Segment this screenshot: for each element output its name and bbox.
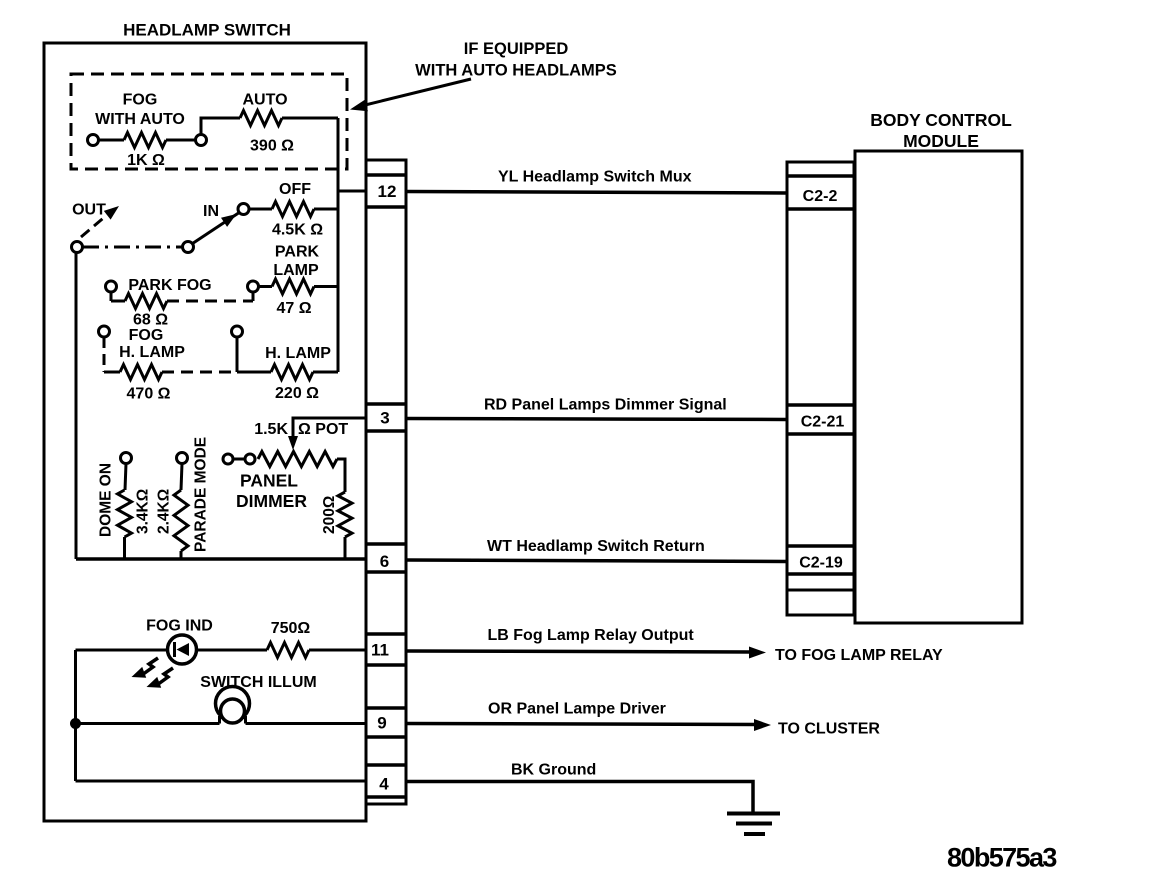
svg-text:9: 9 xyxy=(377,714,386,733)
ground symbol xyxy=(727,814,780,835)
svg-text:TO FOG LAMP RELAY: TO FOG LAMP RELAY xyxy=(775,647,943,664)
svg-text:4.5K Ω: 4.5K Ω xyxy=(272,222,323,239)
pin C2-21 cell xyxy=(787,403,854,407)
svg-text:C2-21: C2-21 xyxy=(801,414,845,431)
lamp SWITCH ILLUM xyxy=(76,674,369,724)
svg-text:80b575a3: 80b575a3 xyxy=(947,843,1057,873)
svg-text:OFF: OFF xyxy=(279,181,311,198)
svg-text:TO CLUSTER: TO CLUSTER xyxy=(778,721,880,738)
svg-text:47 Ω: 47 Ω xyxy=(276,300,311,317)
dashed box: auto headlamp option xyxy=(71,74,347,169)
pin 9 cell xyxy=(366,706,406,710)
resistor 68 ohm (PARK FOG) xyxy=(106,277,254,329)
svg-text:68 Ω: 68 Ω xyxy=(133,312,168,329)
resistor 390 ohm (AUTO) xyxy=(201,92,338,155)
switch common node xyxy=(183,242,194,253)
svg-text:Ω POT: Ω POT xyxy=(298,421,348,438)
BCM connector strip xyxy=(787,162,854,615)
svg-text:H. LAMP: H. LAMP xyxy=(119,344,185,361)
svg-text:H. LAMP: H. LAMP xyxy=(265,345,331,362)
svg-text:470 Ω: 470 Ω xyxy=(127,386,171,403)
svg-text:PARADE MODE: PARADE MODE xyxy=(193,437,210,552)
svg-text:PANEL: PANEL xyxy=(240,471,298,491)
svg-text:SWITCH ILLUM: SWITCH ILLUM xyxy=(200,674,316,691)
switch pivot node xyxy=(72,242,83,253)
wire: left rail from pivot down to dimmer network xyxy=(75,252,78,559)
svg-text:IN: IN xyxy=(203,203,219,220)
wire YL to C2-2 xyxy=(406,192,787,194)
svg-text:1K Ω: 1K Ω xyxy=(127,152,165,169)
svg-text:DIMMER: DIMMER xyxy=(236,491,307,511)
svg-text:WITH AUTO HEADLAMPS: WITH AUTO HEADLAMPS xyxy=(415,62,617,80)
svg-text:LB Fog Lamp Relay Output: LB Fog Lamp Relay Output xyxy=(488,627,695,644)
switch throw arrow OUT (dashed) xyxy=(81,215,107,237)
svg-text:12: 12 xyxy=(378,182,397,201)
svg-text:IF EQUIPPED: IF EQUIPPED xyxy=(464,40,569,58)
wire RD to C2-21 xyxy=(406,419,787,420)
svg-text:LAMP: LAMP xyxy=(273,262,319,279)
svg-text:WT Headlamp Switch Return: WT Headlamp Switch Return xyxy=(487,538,705,555)
svg-text:220 Ω: 220 Ω xyxy=(275,385,319,402)
LED light arrows xyxy=(132,658,174,688)
wire OR panel lamps driver xyxy=(406,724,757,725)
wire: ground row to pin 4 xyxy=(76,780,369,783)
wire WT to C2-19 xyxy=(406,560,787,562)
svg-text:3.4KΩ: 3.4KΩ xyxy=(135,489,152,534)
svg-text:BK Ground: BK Ground xyxy=(511,762,596,779)
resistor 1K ohm (FOG WITH AUTO) xyxy=(88,92,207,170)
svg-text:1.5K: 1.5K xyxy=(254,421,288,438)
resistor 220 ohm (H. LAMP) xyxy=(232,326,339,402)
arrow from note to dashed box xyxy=(357,79,471,107)
svg-text:DOME ON: DOME ON xyxy=(98,463,115,537)
svg-text:11: 11 xyxy=(371,641,389,660)
svg-text:BODY CONTROL: BODY CONTROL xyxy=(870,110,1012,130)
resistor 3.4K ohm (DOME ON) xyxy=(98,453,152,560)
wire BK ground xyxy=(406,782,753,814)
pin 11 cell xyxy=(366,632,406,636)
svg-text:FOG: FOG xyxy=(123,92,158,109)
wire from pin 3 to pot wiper xyxy=(293,418,368,443)
svg-text:MODULE: MODULE xyxy=(903,131,979,151)
body control module box xyxy=(855,151,1022,623)
svg-text:AUTO: AUTO xyxy=(242,92,287,109)
pin 6 cell xyxy=(366,542,406,546)
svg-text:OR Panel Lampe Driver: OR Panel Lampe Driver xyxy=(488,701,666,718)
svg-text:PARK FOG: PARK FOG xyxy=(128,277,211,294)
svg-text:YL Headlamp Switch Mux: YL Headlamp Switch Mux xyxy=(498,169,692,186)
svg-text:FOG: FOG xyxy=(129,327,164,344)
svg-text:750Ω: 750Ω xyxy=(271,620,311,637)
svg-text:3: 3 xyxy=(380,409,389,428)
wire: dimmer network bottom bus to pin 6 xyxy=(76,557,368,561)
pin C2-2 cell xyxy=(787,174,854,178)
svg-text:PARK: PARK xyxy=(275,244,320,261)
resistor 200 ohm xyxy=(321,492,352,559)
potentiometer 1.5K body xyxy=(223,452,345,493)
resistor 4.5K ohm (OFF) xyxy=(238,181,338,239)
pin 12 cell xyxy=(366,173,406,177)
svg-text:C2-2: C2-2 xyxy=(803,188,838,205)
svg-text:WITH AUTO: WITH AUTO xyxy=(95,111,185,128)
switch arm to IN position xyxy=(193,212,241,244)
svg-text:C2-19: C2-19 xyxy=(799,555,843,572)
dash-dot wire from pivot xyxy=(83,246,183,249)
left rail for lamp circuits xyxy=(74,650,77,781)
resistor 470 ohm (FOG H. LAMP) xyxy=(99,326,238,403)
svg-text:4: 4 xyxy=(379,775,389,794)
svg-text:6: 6 xyxy=(380,552,389,571)
resistor 47 ohm (PARK LAMP) xyxy=(248,244,339,318)
svg-text:2.4KΩ: 2.4KΩ xyxy=(156,489,173,534)
wire: common bus vertical to pin 12 xyxy=(337,118,340,372)
strip lower divider xyxy=(787,589,854,592)
headlamp switch enclosure box xyxy=(44,43,366,821)
pin 3 cell xyxy=(366,402,406,406)
pin 4 cell xyxy=(366,763,406,767)
svg-text:390 Ω: 390 Ω xyxy=(250,138,294,155)
pot wiper arrow xyxy=(288,436,298,450)
svg-text:RD Panel Lamps Dimmer Signal: RD Panel Lamps Dimmer Signal xyxy=(484,397,727,414)
svg-text:OUT: OUT xyxy=(72,202,106,219)
connector strip (headlamp switch pins) xyxy=(366,160,406,804)
resistor 750 ohm xyxy=(197,620,369,658)
pin C2-19 cell xyxy=(787,544,854,548)
svg-text:200Ω: 200Ω xyxy=(321,496,338,534)
wire to pin 12 xyxy=(338,190,368,193)
junction node dot xyxy=(70,718,81,729)
svg-text:FOG IND: FOG IND xyxy=(146,618,213,635)
resistor 2.4K ohm (PARADE MODE) xyxy=(156,437,210,559)
svg-text:HEADLAMP SWITCH: HEADLAMP SWITCH xyxy=(123,21,291,40)
LED FOG IND xyxy=(76,618,213,665)
wire LB fog lamp relay output xyxy=(406,651,752,652)
